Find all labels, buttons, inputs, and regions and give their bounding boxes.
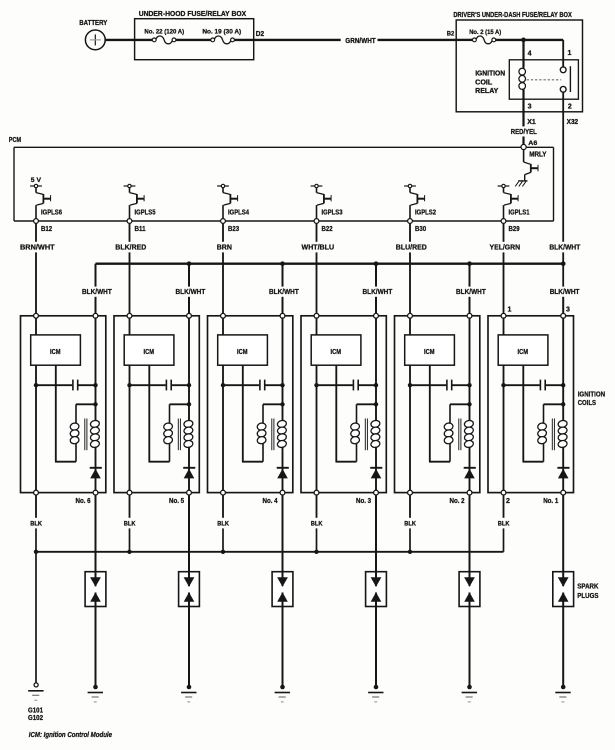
wire coil No. 6 high-tension lead to spark plug [95, 495, 97, 586]
capacitor (coil 1) [504, 380, 564, 391]
junction dots on capacitor row (coil 3) [314, 383, 378, 387]
svg-text:2: 2 [568, 103, 572, 110]
wire fuse No.19 to box edge, terminal D2 [234, 31, 264, 40]
coil number label No. 4 [263, 498, 278, 505]
wire spark plug No. 6 to ground [95, 593, 97, 686]
wire coil No. 2 high-tension lead to spark plug [469, 495, 471, 586]
svg-text:IGPLS3: IGPLS3 [322, 210, 343, 217]
transformer core (coil 6) [85, 419, 87, 451]
diode (coil 1) [557, 468, 569, 479]
MRLY chassis ground [515, 181, 527, 187]
wire B+ feed down right side (coil 5) [170, 316, 192, 421]
bus junction at x=376.0 [374, 261, 379, 266]
transformer secondary winding (coil 3) [370, 420, 380, 449]
svg-text:GRN/WHT: GRN/WHT [345, 38, 376, 45]
transformer secondary winding (coil 4) [277, 420, 287, 449]
wire secondary to diode (coil 4) [282, 447, 284, 493]
5V internal supply terminal for IGPLS6 [30, 177, 42, 188]
wire BLK ground lead from coil No. 2 [404, 495, 416, 552]
wire down to relay coil pin 4 [524, 40, 532, 68]
fuse No.22 (120 A) [144, 29, 184, 44]
wire BLK ground lead from coil No. 1 [498, 495, 510, 552]
svg-text:ICM: ICM [331, 347, 342, 356]
svg-text:3: 3 [566, 307, 570, 314]
wire BLK/RED from pin B11 to ignition coil No. 5 [115, 223, 146, 313]
svg-text:IGPLS4: IGPLS4 [228, 210, 249, 217]
wire BLK ground lead from coil No. 6 [30, 495, 42, 683]
driver transistor IGPLS6 [36, 188, 62, 219]
wire signal input down to ICM (coil 3) [316, 316, 318, 335]
capacitor (coil 6) [36, 380, 96, 391]
wire fuse No.2 to relay pins 4 and 1 [496, 39, 564, 41]
transformer secondary winding (coil 2) [464, 420, 474, 449]
wire secondary to diode (coil 6) [95, 447, 97, 493]
svg-text:BATTERY: BATTERY [79, 20, 107, 27]
PCM pin B23 (IGPLS4) [221, 219, 240, 233]
ground bus junction at x=410.0 [408, 550, 412, 554]
wire BLU/RED from pin B30 to ignition coil No. 2 [396, 223, 427, 313]
wire relay contact pin 2 out of box, terminal X32 [563, 92, 578, 242]
svg-text:ICM: ICM [237, 347, 248, 356]
5V internal supply terminal for IGPLS5 [124, 184, 136, 187]
transformer primary winding (coil 5) [163, 404, 173, 461]
wire signal input down to ICM (coil 4) [222, 316, 224, 335]
transformer primary winding (coil 4) [257, 404, 267, 461]
svg-text:RELAY: RELAY [475, 88, 498, 95]
svg-text:A6: A6 [528, 140, 537, 147]
capacitor (coil 3) [317, 380, 377, 391]
5V internal supply terminal for IGPLS2 [404, 184, 416, 187]
coil number label No. 3 [356, 498, 371, 505]
bus junction at x=189.0 [187, 261, 192, 266]
svg-text:No. 2 (15 A): No. 2 (15 A) [469, 29, 501, 36]
diode (coil 3) [370, 468, 382, 479]
ground G101 G102 [28, 683, 44, 722]
ICM module (coil 1) [498, 335, 548, 365]
svg-text:ICM: ICM [518, 347, 529, 356]
spark plug No. 2 [459, 572, 480, 607]
wire ICM left leg to ground side (coil 1) [503, 365, 505, 492]
spark plug No. 5 [179, 572, 200, 607]
diode (coil 5) [183, 468, 195, 479]
case terminals (coil 2) [408, 313, 472, 495]
diode (coil 4) [277, 468, 289, 479]
junction dots on capacitor row (coil 2) [408, 383, 472, 387]
svg-text:RED/YEL: RED/YEL [511, 129, 538, 136]
wire B+ feed down right side (coil 1) [544, 316, 566, 421]
PCM pin B12 (IGPLS6) [34, 219, 53, 233]
wire BLK ground lead from coil No. 3 [311, 495, 323, 552]
under-hood fuse/relay box [135, 9, 254, 60]
ground bus junction at x=36.0 [34, 550, 38, 554]
coil number label No. 1 [506, 498, 558, 505]
svg-text:B11: B11 [135, 226, 146, 233]
fuse No.2 (15 A) [469, 29, 501, 44]
wire RED/YEL to PCM pin A6 [522, 137, 524, 146]
wire GRN/WHT to terminal B2 [378, 30, 457, 40]
transformer core (coil 1) [552, 419, 554, 451]
ignition coil unit No. 2 outer case [395, 316, 480, 493]
coil number label No. 6 [76, 498, 91, 505]
wire coil No. 3 high-tension lead to spark plug [375, 495, 377, 586]
svg-text:IGPLS2: IGPLS2 [415, 210, 436, 217]
wire ICM left leg to ground side (coil 5) [129, 365, 131, 492]
svg-text:X32: X32 [567, 119, 579, 126]
PCM box [9, 137, 554, 221]
wire coil No. 1 high-tension lead to spark plug [562, 495, 564, 586]
case terminals (coil 5) [127, 313, 191, 495]
wire signal input down to ICM (coil 5) [129, 316, 131, 335]
wire coil No. 4 high-tension lead to spark plug [282, 495, 284, 586]
BLK/WHT drop wire to coil No. 2 [456, 264, 486, 314]
continuation of X32 wire below labels [562, 252, 564, 313]
svg-text:BLK: BLK [30, 520, 42, 527]
ground for spark plug No. 3 [374, 685, 379, 690]
wire BLK ground lead from coil No. 4 [217, 495, 229, 552]
driver's under-dash fuse/relay box [453, 10, 582, 112]
svg-text:X1: X1 [527, 119, 536, 126]
driver transistor IGPLS2 [410, 188, 436, 219]
svg-text:BLK: BLK [124, 520, 136, 527]
wire B+ feed down right side (coil 3) [357, 316, 379, 421]
svg-text:No. 2: No. 2 [450, 498, 465, 505]
svg-text:IGPLS1: IGPLS1 [509, 210, 530, 217]
driver transistor IGPLS4 [223, 188, 249, 219]
5V internal supply terminal for IGPLS1 [498, 184, 510, 187]
ground bus junction at x=223.0 [221, 550, 225, 554]
wire secondary to diode (coil 5) [188, 447, 190, 493]
wire ICM left leg to ground side (coil 4) [222, 365, 224, 492]
svg-text:BLK/RED: BLK/RED [115, 242, 146, 251]
ignition coil unit No. 5 outer case [114, 316, 199, 493]
spark plug No. 6 [85, 572, 106, 607]
relay coil winding [519, 60, 526, 90]
ICM module (coil 2) [405, 335, 455, 365]
battery [79, 20, 107, 50]
wire WHT/BLU from pin B22 to ignition coil No. 3 [302, 223, 335, 313]
driver transistor IGPLS1 [504, 188, 530, 219]
svg-text:WHT/BLU: WHT/BLU [302, 242, 335, 251]
svg-text:ICM: ICM [424, 347, 435, 356]
svg-text:ICM: Ignition Control Module: ICM: Ignition Control Module [29, 730, 112, 739]
svg-text:BLK/WHT: BLK/WHT [549, 243, 580, 252]
wire into fuse No.22 [135, 39, 153, 41]
junction dots on capacitor row (coil 6) [34, 383, 98, 387]
svg-text:4: 4 [528, 50, 532, 57]
wire ICM output to primary winding (coil 4) [242, 365, 263, 462]
svg-text:No. 3: No. 3 [356, 498, 371, 505]
svg-text:2: 2 [506, 498, 510, 505]
ignition coil unit No. 6 outer case [21, 316, 106, 493]
ground bus junction at x=316.5 [314, 550, 318, 554]
svg-text:No. 1: No. 1 [543, 498, 558, 505]
transformer core (coil 3) [365, 419, 367, 451]
case terminals (coil 6) [34, 313, 98, 495]
svg-text:B12: B12 [41, 226, 52, 233]
svg-text:ICM: ICM [144, 347, 155, 356]
ICM module (coil 3) [311, 335, 361, 365]
bus junction at x=282.5 [280, 261, 285, 266]
svg-text:No. 19 (30 A): No. 19 (30 A) [202, 29, 241, 36]
case terminals (coil 4) [221, 313, 285, 495]
svg-text:D2: D2 [256, 31, 264, 38]
junction dots on capacitor row (coil 1) [501, 383, 565, 387]
coil number label No. 2 [450, 498, 465, 505]
driver transistor IGPLS5 [130, 188, 156, 219]
transformer primary winding (coil 3) [350, 404, 360, 461]
bus junction at x=563.2 [561, 261, 566, 266]
wire ICM output to primary winding (coil 2) [429, 365, 450, 462]
junction dots on capacitor row (coil 4) [221, 383, 285, 387]
wire ICM left leg to ground side (coil 3) [316, 365, 318, 492]
svg-text:IGPLS5: IGPLS5 [135, 210, 156, 217]
PCM pin A6 [521, 140, 538, 149]
wire ICM output to primary winding (coil 6) [55, 365, 76, 462]
transformer secondary winding (coil 1) [557, 420, 567, 449]
svg-text:No. 22 (120 A): No. 22 (120 A) [144, 29, 184, 36]
transformer secondary winding (coil 6) [90, 420, 100, 449]
wire BRN from pin B23 to ignition coil No. 4 [217, 223, 232, 313]
wire B+ feed down right side (coil 4) [263, 316, 285, 421]
svg-text:ICM: ICM [50, 347, 61, 356]
bus junction at x=469.5 [467, 261, 472, 266]
svg-text:DRIVER'S UNDER-DASH FUSE/RELAY: DRIVER'S UNDER-DASH FUSE/RELAY BOX [453, 10, 571, 19]
transformer core (coil 2) [459, 419, 461, 451]
svg-text:B2: B2 [447, 30, 455, 37]
PCM pin B30 (IGPLS2) [408, 219, 427, 233]
5V internal supply terminal for IGPLS3 [311, 184, 323, 187]
BLK/WHT drop wire to coil No. 6 [82, 264, 112, 314]
ground for spark plug No. 1 [561, 685, 566, 690]
ignition coil relay [475, 60, 578, 99]
transformer core (coil 4) [272, 419, 274, 451]
svg-text:MRLY: MRLY [529, 152, 547, 159]
junction at fuse output [521, 38, 526, 43]
wire fuse No.22 to fuse No.19 [176, 39, 211, 41]
wire B+ feed down right side (coil 6) [76, 316, 98, 421]
svg-text:COILS: COILS [578, 398, 596, 407]
case terminals (coil 1) [501, 313, 565, 495]
spark plug No. 1 [553, 572, 574, 607]
capacitor (coil 2) [410, 380, 470, 391]
wire ICM output to primary winding (coil 3) [336, 365, 357, 462]
diode (coil 6) [90, 468, 102, 479]
wire BRN/WHT from pin B12 to ignition coil No. 6 [20, 223, 55, 313]
svg-text:5 V: 5 V [31, 177, 42, 184]
svg-text:BLK/WHT: BLK/WHT [550, 287, 580, 296]
coil number label No. 5 [169, 498, 184, 505]
PCM pin B11 (IGPLS5) [127, 219, 146, 233]
svg-text:SPARK: SPARK [577, 581, 599, 590]
wire ICM left leg to ground side (coil 2) [409, 365, 411, 492]
svg-text:1: 1 [568, 50, 572, 57]
fuse No.19 (30 A) [202, 29, 241, 44]
wire ICM output to primary winding (coil 1) [523, 365, 544, 462]
svg-text:BLK/WHT: BLK/WHT [456, 287, 486, 296]
SPARK PLUGS label [577, 581, 599, 600]
svg-text:YEL/GRN: YEL/GRN [490, 242, 521, 251]
svg-text:G101: G101 [28, 708, 43, 715]
capacitor (coil 5) [130, 380, 190, 391]
svg-text:BLK: BLK [404, 520, 416, 527]
wire spark plug No. 5 to ground [188, 593, 190, 686]
svg-text:BLK: BLK [498, 520, 510, 527]
svg-text:BLK: BLK [311, 520, 323, 527]
PCM pin B29 (IGPLS1) [501, 219, 520, 233]
svg-text:No. 6: No. 6 [76, 498, 91, 505]
svg-text:1: 1 [507, 307, 511, 314]
svg-text:BLK/WHT: BLK/WHT [363, 287, 393, 296]
BLK/WHT power bus from X32 [96, 263, 564, 265]
ground bus junction at x=129.5 [127, 550, 131, 554]
BLK/WHT drop wire to coil No. 5 [176, 264, 206, 314]
ICM module (coil 5) [124, 335, 174, 365]
wire spark plug No. 2 to ground [469, 593, 471, 686]
svg-text:B22: B22 [322, 226, 333, 233]
ground bus wire [36, 551, 504, 553]
5V internal supply terminal for IGPLS4 [217, 184, 229, 187]
driver transistor IGPLS3 [317, 188, 343, 219]
wire signal input down to ICM (coil 6) [35, 316, 37, 335]
wire ICM left leg to ground side (coil 6) [35, 365, 37, 492]
wire secondary to diode (coil 2) [469, 447, 471, 493]
ignition coil unit No. 1 outer case [488, 316, 574, 493]
svg-text:B30: B30 [415, 226, 426, 233]
svg-text:BLK/WHT: BLK/WHT [269, 287, 299, 296]
svg-text:B29: B29 [509, 226, 520, 233]
wire coil No. 5 high-tension lead to spark plug [188, 495, 190, 586]
wire ICM output to primary winding (coil 5) [149, 365, 170, 462]
svg-text:BLK/WHT: BLK/WHT [82, 287, 112, 296]
ground for spark plug No. 4 [280, 685, 285, 690]
svg-text:PLUGS: PLUGS [577, 591, 598, 600]
wire battery to under-hood box [105, 39, 134, 41]
wire YEL/GRN from pin B29 to ignition coil No. 1 [490, 223, 521, 313]
junction dots on capacitor row (coil 5) [127, 383, 191, 387]
wire down to relay contact pin 1 [563, 40, 571, 67]
IGNITION COILS label [578, 390, 605, 407]
svg-text:No. 4: No. 4 [263, 498, 278, 505]
svg-text:BRN: BRN [217, 242, 232, 251]
svg-text:BRN/WHT: BRN/WHT [20, 242, 55, 251]
svg-text:BLU/RED: BLU/RED [396, 242, 427, 251]
transformer primary winding (coil 2) [444, 404, 454, 461]
ignition coil unit No. 4 outer case [208, 316, 293, 493]
wire spark plug No. 3 to ground [375, 593, 377, 686]
wire secondary to diode (coil 1) [562, 447, 564, 493]
svg-text:IGPLS6: IGPLS6 [41, 210, 62, 217]
svg-text:COIL: COIL [475, 79, 492, 86]
ground for spark plug No. 6 [93, 685, 98, 690]
svg-text:G102: G102 [28, 715, 43, 722]
relay contact circles and blade [560, 66, 570, 92]
svg-text:IGNITION: IGNITION [475, 70, 505, 77]
wire BLK ground lead from coil No. 5 [124, 495, 136, 552]
wire spark plug No. 4 to ground [282, 593, 284, 686]
transformer primary winding (coil 1) [537, 404, 547, 461]
wire signal input down to ICM (coil 2) [409, 316, 411, 335]
svg-text:PCM: PCM [9, 137, 21, 144]
ground for spark plug No. 5 [187, 685, 192, 690]
relay actuator dashed link [527, 79, 562, 81]
case terminals (coil 3) [314, 313, 378, 495]
PCM pin B22 (IGPLS3) [314, 219, 333, 233]
ground for spark plug No. 2 [467, 685, 472, 690]
svg-text:UNDER-HOOD FUSE/RELAY BOX: UNDER-HOOD FUSE/RELAY BOX [139, 9, 247, 18]
BLK/WHT drop wire to coil No. 3 [363, 264, 393, 314]
transformer primary winding (coil 6) [70, 404, 80, 461]
ignition coil unit No. 3 outer case [301, 316, 386, 493]
svg-text:3: 3 [528, 103, 532, 110]
MRLY driver transistor [524, 150, 547, 181]
transformer secondary winding (coil 5) [183, 420, 193, 449]
wire signal input down to ICM (coil 1) [503, 316, 505, 335]
wire B+ feed down right side (coil 2) [450, 316, 472, 421]
wire spark plug No. 1 to ground [562, 593, 564, 686]
svg-text:No. 5: No. 5 [169, 498, 184, 505]
wire relay coil pin 3 out of box, terminal X1 [524, 89, 536, 127]
svg-text:BLK/WHT: BLK/WHT [176, 287, 206, 296]
BLK/WHT drop wire to coil No. 4 [269, 264, 299, 314]
svg-text:B23: B23 [228, 226, 239, 233]
wire D2 to GRN/WHT label [254, 39, 341, 41]
wire secondary to diode (coil 3) [375, 447, 377, 493]
ICM module (coil 4) [218, 335, 268, 365]
svg-text:BLK: BLK [217, 520, 229, 527]
wire box edge into fuse No.2 [457, 39, 473, 41]
spark plug No. 4 [272, 572, 293, 607]
ICM module (coil 6) [31, 335, 81, 365]
capacitor (coil 4) [223, 380, 283, 391]
spark plug No. 3 [366, 572, 387, 607]
diode (coil 2) [464, 468, 476, 479]
transformer core (coil 5) [178, 419, 180, 451]
